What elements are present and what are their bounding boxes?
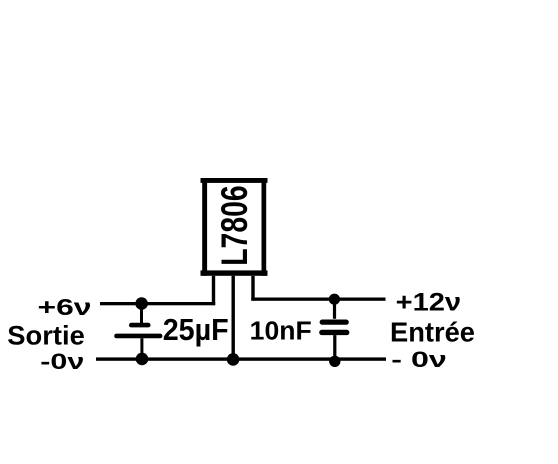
node junction dot C1 to 0v rail (136, 353, 149, 366)
svg-text:10nF: 10nF (250, 318, 312, 346)
label +12v input voltage (396, 289, 462, 317)
label Entrée (input) (390, 317, 475, 348)
wire 0v bottom rail (96, 357, 386, 360)
capacitor C2 10nF (319, 299, 349, 361)
pin 1 output lead (212, 276, 215, 305)
node junction dot pin2 to 0v rail (227, 353, 240, 366)
node junction dot on +6v wire (135, 297, 148, 310)
svg-text:25µF: 25µF (163, 312, 229, 347)
regulator U1 body (201, 178, 268, 276)
wire +6v output horizontal (100, 302, 215, 305)
svg-text:L7806: L7806 (214, 185, 255, 266)
node junction dot on +12v wire (329, 294, 340, 305)
capacitor C1 25uF polarized (114, 304, 162, 359)
svg-text:-0ν: -0ν (40, 349, 84, 374)
svg-text:+12ν: +12ν (396, 289, 462, 317)
capacitor C1 value label 25µF (163, 312, 229, 347)
label Sortie (output) (7, 321, 85, 351)
svg-text:+6ν: +6ν (38, 294, 92, 320)
svg-text:- 0ν: - 0ν (391, 347, 447, 372)
label +6v output voltage (38, 294, 92, 320)
node junction dot C2 to 0v rail (329, 356, 340, 367)
pin 2 ground lead (232, 276, 235, 360)
svg-text:Entrée: Entrée (390, 317, 475, 348)
wire +12v input horizontal (251, 298, 385, 301)
label - 0v input return (391, 347, 447, 372)
capacitor C2 value label 10nF (250, 318, 312, 346)
regulator U1 value label L7806 (214, 185, 255, 266)
label -0v output return (40, 349, 84, 374)
pin 3 input lead (251, 276, 254, 301)
svg-text:Sortie: Sortie (7, 321, 85, 351)
